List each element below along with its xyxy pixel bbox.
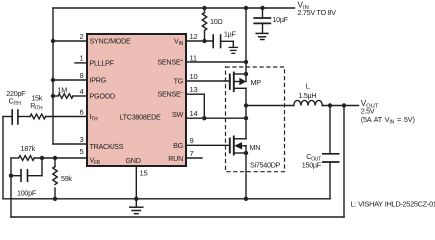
node 100pF left [9,174,13,178]
svg-text:MN: MN [250,143,261,152]
node 1M/rail [51,94,55,98]
svg-text:59k: 59k [61,174,72,183]
svg-text:2: 2 [80,32,84,41]
node SENSE+/MP [244,60,248,64]
node pin8/rail [51,78,55,82]
wire MN source to ground rail [245,146,247,199]
svg-text:L: VISHAY IHLD-2525CZ-01: L: VISHAY IHLD-2525CZ-01 [351,200,435,209]
dashed box Si7540DP [226,67,285,172]
wire CITH down to ground rail [2,117,4,199]
svg-text:RUN: RUN [168,154,183,163]
svg-text:GND: GND [126,156,141,165]
svg-text:4: 4 [80,87,84,96]
wire top rail VIN [53,7,295,9]
svg-text:10: 10 [190,72,198,81]
wire GND pin15 [135,166,137,199]
capacitor 10uF [262,8,264,18]
node MP source tie [244,72,248,76]
inductor L 1.5uH [294,100,322,105]
wire pin12 VIN [186,40,213,42]
wire pin13 SENSE- [186,93,204,95]
wire pin8 IPRG [53,79,87,81]
node 187k/100pF right [40,156,44,160]
node FB top [342,103,346,107]
ground symbol 1uF [232,41,234,47]
wire bottom feedback [11,216,344,218]
wire pin1 PLLLPF stub [75,62,87,64]
svg-text:12: 12 [190,32,198,41]
svg-text:SYNC/MODE: SYNC/MODE [90,37,131,46]
resistor RITH 15k [30,114,46,119]
capacitor 100pF [11,175,21,177]
wire ground rail [3,198,330,200]
svg-text:Si7540DP: Si7540DP [250,160,281,169]
wire SW node to inductor [246,105,294,107]
svg-text:5: 5 [80,147,84,156]
IC body LTC3808EDE [87,34,186,166]
node MN source tie [244,151,248,155]
wire FB left vertical [10,158,12,217]
resistor 187k [19,156,35,161]
IC pin names [90,37,184,166]
svg-text:10Ω: 10Ω [210,17,223,26]
resistor 59k [54,158,56,167]
svg-text:9: 9 [190,136,194,145]
node MN ground [244,197,248,201]
svg-text:L: L [306,82,310,91]
svg-text:7: 7 [190,149,194,158]
ground symbol main [135,199,137,207]
svg-text:10µF: 10µF [272,15,288,24]
svg-text:PGOOD: PGOOD [90,92,115,101]
resistor 10ohm [204,8,206,13]
resistor R 1M [58,94,73,99]
wire VIN to MP vertical [245,8,247,82]
svg-text:LTC3808EDE: LTC3808EDE [120,113,161,122]
node 10ohm top [202,6,206,10]
wire pin4 PGOOD [53,95,58,97]
svg-text:SW: SW [172,110,184,119]
wire pin3 TRACK/SS [53,143,87,145]
wire pin11 SENSE+ [186,61,246,63]
node L tap [244,103,248,107]
wire pin10 TG to MP gate [186,80,230,82]
svg-text:TRACK/SS: TRACK/SS [90,142,124,151]
wire pin6 ITH [3,116,12,118]
svg-text:3: 3 [80,135,84,144]
svg-text:BG: BG [173,141,184,150]
svg-text:187k: 187k [21,144,36,153]
node SW/vertical [244,116,248,120]
svg-text:150µF: 150µF [302,161,322,170]
svg-text:IPRG: IPRG [90,76,107,85]
svg-text:8: 8 [80,71,84,80]
ground symbol 10uF [256,32,268,34]
capacitor COUT 150uF [329,106,331,154]
svg-text:(5A AT VIN = 5V): (5A AT VIN = 5V) [361,115,415,126]
svg-text:MP: MP [251,78,262,87]
capacitor CITH 220pF [11,110,13,124]
node pin12/10ohm [202,39,206,43]
svg-text:TG: TG [174,77,184,86]
wire MP drain to MN drain (SW node) [245,88,247,139]
wire pin5 VFB [11,157,19,159]
svg-text:1.5µH: 1.5µH [298,91,316,100]
svg-text:1µF: 1µF [224,29,237,38]
node MP rail top [244,6,248,10]
wire pin9 BG to MN gate [186,144,230,146]
node 59k bottom [53,197,57,201]
node COUT top [328,103,332,107]
svg-text:1M: 1M [58,85,68,94]
svg-text:1: 1 [80,54,84,63]
transistor MP (PMOS) [229,75,231,90]
svg-text:11: 11 [190,54,197,63]
wire pin14 SW [186,117,246,119]
svg-text:100pF: 100pF [17,188,37,197]
pin numbers [80,32,198,177]
svg-text:SENSE+: SENSE+ [157,57,183,66]
wire inductor to VOUT [322,105,358,107]
svg-text:6: 6 [80,108,84,117]
svg-text:13: 13 [190,85,198,94]
capacitor 1uF [212,35,214,48]
node 10uF top [260,6,264,10]
node 59k top [53,156,57,160]
svg-text:SENSE–: SENSE– [158,90,184,99]
svg-text:PLLLPF: PLLLPF [90,58,115,67]
svg-text:15: 15 [140,169,148,178]
svg-text:14: 14 [190,109,198,118]
node SENSE-/SW [202,116,206,120]
transistor MN (NMOS) [229,139,231,153]
svg-text:2.75V TO 8V: 2.75V TO 8V [298,8,337,17]
wire pin2 SYNC/MODE [53,40,87,42]
wire left bias vertical [52,8,54,144]
node GND rail [134,197,138,201]
node pin2/rail [51,39,55,43]
wire pin7 RUN stub [186,157,202,159]
